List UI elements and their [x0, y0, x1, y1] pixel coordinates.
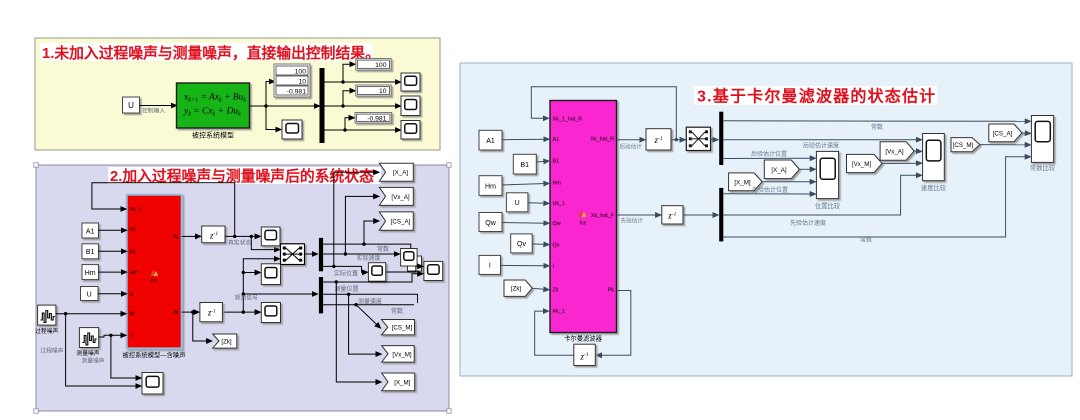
junction X_A: [332, 265, 335, 268]
svg-text:[CS_A]: [CS_A]: [391, 219, 411, 226]
wire Vx_A to scope: [914, 150, 918, 152]
kalman filter block (magenta): [550, 101, 617, 333]
svg-text:后验估计位置: 后验估计位置: [751, 150, 787, 158]
junction obs wire: [242, 310, 245, 313]
junction Vx_A: [344, 252, 347, 255]
svg-text:[X_M]: [X_M]: [734, 179, 750, 186]
svg-text:U: U: [87, 292, 92, 299]
svg-text:Qw: Qw: [485, 220, 496, 227]
svg-text:实际位置: 实际位置: [334, 270, 358, 278]
wire B1: [536, 160, 545, 163]
right scope: [424, 261, 443, 280]
bar2 out1 wire 先验估计位置: [723, 193, 812, 195]
selection handle bottom-left: [34, 409, 38, 413]
wire Xk_hat_F to delay: [617, 214, 658, 216]
svg-text:I: I: [553, 264, 555, 270]
scope real state: [261, 227, 280, 246]
svg-text:[Zk]: [Zk]: [511, 286, 522, 293]
svg-text:10: 10: [298, 78, 306, 85]
red block port labels: [130, 207, 180, 339]
goto tag [CS_A]: [379, 212, 413, 230]
input block B1: [82, 244, 99, 259]
svg-text:过程噪声: 过程噪声: [35, 327, 58, 335]
panel 3 background: [460, 63, 1072, 376]
demux bar: [320, 68, 325, 143]
svg-text:Hm: Hm: [130, 270, 139, 276]
noisy plant block (red): [127, 195, 182, 349]
block U (constant input): [123, 97, 140, 113]
input block Qw: [479, 213, 502, 232]
svg-text:A1: A1: [86, 228, 95, 235]
unit delay z-1 Pk: [574, 344, 596, 365]
junction obs-demux2: [242, 292, 245, 295]
kalman port labels: [553, 116, 615, 315]
svg-text:Pk_1: Pk_1: [553, 309, 565, 315]
wire state delay to scope: [225, 235, 257, 237]
wire Qw: [502, 222, 546, 225]
wire red Xk to unit delay: [182, 235, 197, 237]
svg-text:[CS_M]: [CS_M]: [953, 142, 974, 149]
svg-text:fcn: fcn: [580, 221, 587, 227]
wire to goto X_M: [336, 282, 377, 382]
svg-text:Hm: Hm: [553, 181, 562, 187]
input block Qv: [511, 234, 533, 253]
from tag [Vx_A]: [880, 142, 914, 161]
input block U: [506, 193, 528, 212]
wire prior delay to bar2: [683, 214, 715, 216]
svg-text:[X_A]: [X_A]: [771, 167, 786, 174]
wire Hm: [502, 184, 546, 186]
junction for mux branch: [250, 235, 253, 238]
kalman fcn icon: [579, 210, 587, 217]
wire branch to mux input1: [251, 236, 276, 249]
wire U to plant, label 控制输入: [140, 105, 174, 107]
from tag [CS_M]: [951, 138, 980, 152]
wire to goto Zk: [193, 312, 208, 341]
panel 2 background: [36, 165, 449, 411]
mux block: [281, 244, 305, 265]
wire branch down to scope: [266, 106, 278, 130]
wire Xk_hat_R to delay: [617, 139, 642, 141]
branch to display 10: [343, 91, 352, 106]
svg-text:卡尔曼滤波器: 卡尔曼滤波器: [564, 334, 602, 343]
wire Hm: [99, 271, 124, 273]
wire noise2 to V port: [99, 335, 123, 337]
scope 常数比较: [1031, 116, 1053, 163]
title 3 highlight: [694, 86, 937, 105]
svg-text:-0.981: -0.981: [287, 88, 306, 95]
wire mid scope to right scope: [386, 266, 420, 272]
svg-text:U: U: [130, 292, 134, 298]
bar1 out3 wire 后验估计位置: [723, 157, 812, 159]
PANEL3: [460, 63, 1072, 376]
feedback wire Xk_1: [92, 183, 235, 237]
junction X_M: [335, 280, 338, 283]
svg-text:Hm: Hm: [485, 183, 496, 190]
demux bar 1: [319, 238, 323, 271]
noise scope: [142, 373, 163, 395]
svg-text:B1: B1: [521, 162, 530, 169]
double scope front rect: [401, 249, 418, 267]
wire to goto CS_A: [364, 221, 375, 244]
svg-text:常数比较: 常数比较: [1030, 163, 1056, 172]
scope block (plant output): [282, 120, 302, 139]
wire demux out 1: [325, 81, 398, 83]
red block fcn icon: [151, 269, 159, 276]
svg-text:被控系统模型—含噪声: 被控系统模型—含噪声: [123, 350, 186, 359]
wire demux out 2: [325, 105, 398, 107]
svg-text:过程噪声: 过程噪声: [40, 347, 63, 355]
svg-text:fcn: fcn: [151, 278, 158, 284]
svg-text:I: I: [489, 263, 491, 270]
input block U: [81, 287, 99, 301]
svg-text:Qv: Qv: [517, 241, 526, 248]
junction on plant output: [264, 104, 267, 107]
scope 2: [401, 96, 420, 116]
svg-text:A1: A1: [553, 137, 560, 143]
svg-text:V: V: [130, 333, 134, 339]
branch to display -0.981: [345, 118, 351, 130]
input block A1: [479, 130, 502, 150]
junction on state wire: [233, 235, 236, 238]
wire demux out 3: [325, 129, 398, 131]
svg-text:常数: 常数: [871, 123, 883, 131]
unit delay z-1 posterior: [646, 129, 671, 150]
bar2 out3 wire 常数 bottom: [723, 157, 1027, 237]
svg-text:A1: A1: [130, 227, 137, 233]
svg-text:位置比较: 位置比较: [815, 201, 841, 210]
wire U: [98, 293, 123, 295]
svg-text:Pk: Pk: [608, 288, 615, 294]
display -0.981: [355, 113, 392, 124]
display 10: [356, 85, 391, 96]
wire U: [528, 202, 546, 205]
noise source 1 (process noise): [38, 305, 56, 325]
junction noise2: [109, 334, 112, 337]
PANEL2: [34, 163, 451, 413]
wire delay to Pk_1: [535, 311, 574, 355]
input block Hm: [479, 176, 502, 196]
title 2 highlight: [108, 167, 381, 184]
from tag [Zk]: [504, 280, 532, 296]
wire noise1 branch to noise scope: [66, 314, 138, 386]
svg-text:yk = Cxk + Duk: yk = Cxk + Duk: [183, 107, 241, 118]
svg-text:-0.981: -0.981: [367, 116, 386, 123]
svg-text:先验估计速度: 先验估计速度: [790, 219, 826, 227]
double scope back rect: [408, 256, 422, 271]
wire CS_M to scope: [980, 144, 1027, 146]
svg-text:先验估计: 先验估计: [621, 217, 644, 225]
junction out1: [341, 80, 344, 83]
wire obs delay to scope3: [222, 311, 256, 313]
junction Vx_M: [347, 293, 350, 296]
unit delay z-1 (state): [202, 226, 225, 243]
plant block (green state-space): [177, 83, 250, 128]
from tag [X_A]: [764, 160, 799, 179]
svg-text:U: U: [515, 200, 520, 207]
input block A1: [82, 223, 99, 238]
from tag [Vx_M]: [847, 154, 883, 172]
demux2 out1 wire 测量位置: [323, 274, 419, 282]
svg-text:Hm: Hm: [85, 270, 96, 277]
mid scope (actual position): [368, 263, 385, 282]
bar1 out1 wire 常数 top: [723, 120, 1027, 123]
wire plant to demux bar: [250, 105, 317, 107]
wire delay to mux3: [671, 139, 682, 141]
PANEL1: [35, 38, 440, 150]
wire mux3 to demux bar1: [711, 139, 715, 141]
demux bar 2 panel3: [719, 188, 723, 242]
wire A1: [99, 229, 124, 231]
wire X_A to scope: [799, 168, 812, 170]
svg-text:Uk_1: Uk_1: [553, 201, 566, 207]
wire to goto Vx_M: [349, 294, 378, 354]
scope 位置比较: [816, 151, 838, 198]
goto tag [Zk]: [213, 334, 237, 348]
from tag [X_M]: [729, 173, 763, 191]
unit delay z-1 prior: [662, 206, 683, 224]
svg-text:测量噪声: 测量噪声: [81, 357, 104, 365]
goto tag [Vx_M]: [382, 346, 415, 363]
junction out2: [341, 104, 344, 107]
svg-text:Zk: Zk: [173, 310, 179, 316]
svg-text:[Vx_M]: [Vx_M]: [852, 161, 872, 168]
branch to demux2: [243, 293, 314, 295]
svg-text:B1: B1: [86, 249, 95, 256]
goto tag [X_A]: [379, 163, 413, 181]
junction CS_M: [354, 303, 357, 306]
panel 1 background: [35, 38, 440, 150]
svg-text:先验估计位置: 先验估计位置: [752, 186, 788, 194]
wire noise2 branch to noise scope: [111, 335, 138, 378]
svg-text:3.基于卡尔曼滤波器的状态估计: 3.基于卡尔曼滤波器的状态估计: [697, 87, 936, 106]
obs delay z-1: [200, 303, 223, 322]
junction out3: [343, 128, 346, 131]
svg-text:Xk_hat_R: Xk_hat_R: [590, 137, 614, 143]
svg-text:[X_M]: [X_M]: [394, 379, 410, 386]
observation vertical branch: [243, 259, 276, 312]
display stack block: [274, 64, 310, 97]
scope 3: [401, 121, 420, 140]
scope 2: [261, 264, 280, 285]
svg-text:[Zk]: [Zk]: [221, 339, 232, 346]
wire red Zk to obs delay: [182, 311, 196, 313]
svg-text:常数: 常数: [860, 236, 872, 244]
selection handle bottom-right: [447, 409, 451, 413]
svg-text:测量位置: 测量位置: [335, 285, 359, 293]
svg-text:Zk: Zk: [553, 288, 559, 294]
demux bar 1 panel3: [719, 112, 723, 165]
wire A1: [502, 138, 546, 141]
demux1 out2 wire: [323, 253, 396, 255]
wire noise1 to W port: [56, 313, 123, 315]
svg-text:[Vx_A]: [Vx_A]: [885, 148, 904, 155]
junction posterior feedback: [675, 138, 678, 141]
svg-text:1.未加入过程噪声与测量噪声，直接输出控制结果。: 1.未加入过程噪声与测量噪声，直接输出控制结果。: [42, 44, 380, 62]
svg-text:Qw: Qw: [553, 221, 561, 227]
wire CS_A to scope: [1022, 132, 1027, 134]
wire Vx_M to scope: [882, 162, 918, 164]
svg-text:Xk_1_hat_R: Xk_1_hat_R: [553, 116, 583, 122]
display 100: [356, 59, 391, 71]
junction CS_A: [362, 242, 365, 245]
scope 速度比较: [923, 134, 945, 181]
diagonal wire to goto CS_M: [356, 305, 378, 326]
selection handle top-right: [447, 163, 451, 167]
svg-text:10: 10: [379, 88, 387, 95]
wire I: [501, 264, 546, 266]
bar1 out2 wire 后验估计速度: [723, 139, 918, 141]
svg-text:测量速度: 测量速度: [358, 297, 382, 305]
input block Hm: [82, 265, 99, 280]
junction noise1: [64, 312, 67, 315]
wire Zk: [532, 288, 545, 289]
svg-text:速度比较: 速度比较: [921, 183, 947, 192]
selection handle top-left: [34, 163, 38, 167]
junction to goto Zk: [191, 310, 194, 313]
svg-text:B1: B1: [130, 249, 137, 255]
demux1 out3 wire: [323, 266, 364, 272]
goto tag [X_M]: [382, 373, 415, 391]
wire Pk to delay: [600, 291, 631, 356]
bar2 out2 wire 先验估计速度: [723, 175, 918, 215]
svg-text:真实状态: 真实状态: [228, 239, 251, 247]
svg-text:[X_A]: [X_A]: [393, 170, 408, 177]
scope 3: [261, 303, 280, 323]
svg-text:Qv: Qv: [553, 242, 560, 248]
wire B1: [99, 250, 124, 252]
svg-text:观测信号: 观测信号: [235, 294, 258, 302]
input block I: [479, 255, 501, 274]
mux3 block: [686, 127, 710, 150]
wire to goto Vx_A: [345, 196, 375, 254]
svg-text:测量噪声: 测量噪声: [76, 349, 99, 357]
svg-text:被控系统模型: 被控系统模型: [192, 131, 234, 140]
svg-text:实际速度: 实际速度: [357, 254, 381, 262]
demux bar 2: [319, 277, 323, 313]
svg-text:Xk: Xk: [173, 234, 180, 240]
demux2 out2 wire 测量速度: [323, 294, 417, 303]
goto tag [CS_M]: [382, 320, 415, 335]
from tag [CS_A]: [989, 124, 1022, 142]
title 1 highlight: [40, 43, 373, 61]
svg-text:常数: 常数: [377, 245, 389, 253]
svg-text:100: 100: [295, 68, 307, 75]
svg-text:[Vx_A]: [Vx_A]: [391, 194, 410, 201]
wire X_M to scope: [762, 181, 812, 183]
noise source 2 (measurement noise): [79, 328, 98, 348]
wire to goto X_A: [334, 172, 376, 266]
goto tag [Vx_A]: [379, 187, 413, 205]
branch to display 100: [343, 64, 352, 82]
svg-text:[Vx_M]: [Vx_M]: [392, 351, 412, 358]
wire Qv: [532, 243, 545, 246]
branch to scope2: [243, 272, 256, 274]
feedback wire to Xk_1_hat_R: [531, 87, 676, 140]
svg-text:A1: A1: [486, 138, 495, 145]
junction obs-scope2: [242, 271, 245, 274]
svg-text:100: 100: [375, 62, 387, 69]
scope 1: [401, 73, 420, 91]
demux1 out1 wire (to dscope): [323, 244, 411, 248]
svg-text:控制输入: 控制输入: [142, 107, 165, 115]
svg-text:[CS_A]: [CS_A]: [993, 130, 1013, 137]
svg-text:常数: 常数: [391, 307, 403, 315]
input block B1: [513, 154, 536, 174]
demux2 out3 wire: [323, 304, 414, 306]
svg-text:后验估计: 后验估计: [620, 143, 643, 151]
wire branch up to display stack: [266, 82, 271, 107]
svg-text:Xk_hat_F: Xk_hat_F: [591, 213, 615, 219]
svg-text:B1: B1: [553, 158, 560, 164]
svg-text:后验估计速度: 后验估计速度: [803, 142, 839, 150]
svg-text:[CS_M]: [CS_M]: [392, 325, 413, 332]
svg-text:Xk_1: Xk_1: [130, 207, 142, 213]
svg-text:U: U: [128, 101, 134, 110]
wire mux to demux1: [305, 253, 315, 255]
